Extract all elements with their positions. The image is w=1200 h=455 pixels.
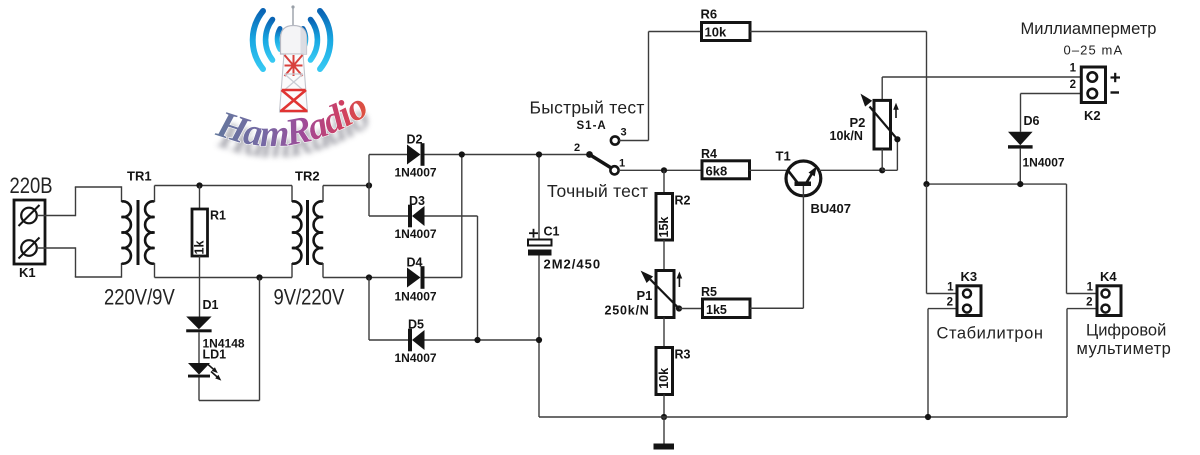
svg-text:BU407: BU407 <box>811 201 851 216</box>
svg-text:1: 1 <box>619 157 625 169</box>
svg-text:R3: R3 <box>675 348 691 362</box>
svg-text:D4: D4 <box>407 256 423 270</box>
svg-text:C1: C1 <box>544 225 560 239</box>
svg-text:R6: R6 <box>701 7 718 22</box>
svg-text:Точный тест: Точный тест <box>547 181 648 201</box>
svg-text:6k8: 6k8 <box>706 164 728 179</box>
svg-text:K2: K2 <box>1084 108 1101 123</box>
svg-text:Быстрый тест: Быстрый тест <box>530 98 645 118</box>
svg-text:R5: R5 <box>701 285 717 299</box>
svg-text:10k/N: 10k/N <box>830 129 863 143</box>
svg-text:P1: P1 <box>637 288 653 303</box>
svg-text:TR2: TR2 <box>295 169 320 184</box>
svg-text:D5: D5 <box>408 318 424 332</box>
svg-text:1N4007: 1N4007 <box>395 351 437 365</box>
svg-text:T1: T1 <box>776 149 791 164</box>
svg-text:D6: D6 <box>1024 114 1040 128</box>
svg-text:Миллиамперметр: Миллиамперметр <box>1021 20 1157 38</box>
svg-text:K1: K1 <box>19 265 36 280</box>
svg-text:250k/N: 250k/N <box>605 304 650 318</box>
svg-text:1k5: 1k5 <box>706 303 727 317</box>
svg-text:1N4007: 1N4007 <box>395 166 437 180</box>
svg-text:1N4007: 1N4007 <box>1023 156 1065 170</box>
svg-text:Стабилитрон: Стабилитрон <box>937 325 1044 343</box>
svg-text:1k: 1k <box>192 241 206 255</box>
svg-text:TR1: TR1 <box>127 169 152 184</box>
svg-text:10k: 10k <box>657 368 671 389</box>
svg-text:2: 2 <box>1086 297 1092 309</box>
svg-text:1N4007: 1N4007 <box>395 227 437 241</box>
svg-text:LD1: LD1 <box>203 348 227 362</box>
svg-text:0–25 mA: 0–25 mA <box>1064 43 1124 58</box>
svg-text:15k: 15k <box>657 217 671 238</box>
svg-text:K4: K4 <box>1100 269 1117 284</box>
svg-text:1: 1 <box>1070 63 1077 75</box>
svg-text:2: 2 <box>947 297 953 309</box>
svg-text:220В: 220В <box>10 173 53 198</box>
svg-text:10k: 10k <box>705 25 727 40</box>
svg-text:2: 2 <box>1070 79 1076 91</box>
svg-text:R1: R1 <box>210 209 226 223</box>
svg-text:1N4007: 1N4007 <box>395 290 437 304</box>
svg-text:P2: P2 <box>850 115 866 130</box>
svg-text:K3: K3 <box>961 269 978 284</box>
svg-text:Цифровой: Цифровой <box>1086 322 1166 340</box>
svg-text:9V/220V: 9V/220V <box>274 285 345 310</box>
svg-text:мультиметр: мультиметр <box>1077 340 1172 358</box>
svg-text:220V/9V: 220V/9V <box>104 285 175 310</box>
svg-text:2: 2 <box>574 142 580 154</box>
svg-text:2M2/450: 2M2/450 <box>544 257 602 272</box>
svg-text:1: 1 <box>1087 282 1094 294</box>
svg-text:1: 1 <box>947 282 954 294</box>
svg-text:R4: R4 <box>701 147 717 161</box>
svg-text:S1-A: S1-A <box>577 120 607 132</box>
svg-text:R2: R2 <box>675 194 691 208</box>
svg-text:D2: D2 <box>407 133 423 147</box>
svg-text:D1: D1 <box>203 298 219 312</box>
svg-text:D3: D3 <box>409 194 425 208</box>
svg-text:3: 3 <box>621 127 627 139</box>
